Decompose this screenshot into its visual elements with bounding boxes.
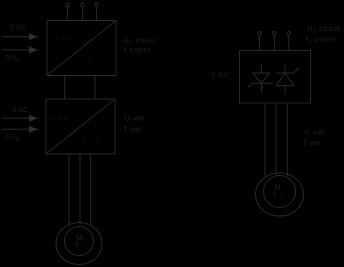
svg-text:3 AC: 3 AC: [10, 23, 27, 32]
wire T6 drop: [288, 35, 290, 50]
wire motor phase 1: [68, 154, 70, 225]
svg-text:f var: f var: [125, 124, 143, 133]
svg-text:= DC: = DC: [52, 115, 69, 122]
svg-text:f var: f var: [304, 138, 322, 147]
thyristor V1 triangle: [253, 73, 270, 83]
thyristor V1 bottom lead: [260, 83, 262, 92]
thyristor V2 gate: [294, 68, 299, 74]
svg-text:~: ~: [102, 55, 106, 62]
wire motor2 phase 2: [275, 103, 277, 174]
thyristor V1 gate: [248, 83, 253, 87]
wire motor2 phase 3: [286, 103, 288, 176]
thyristor V1 cathode bar: [253, 82, 273, 84]
terminal T3 left: [95, 3, 99, 7]
wire T4 drop: [259, 35, 261, 50]
arrow A4 head: [30, 126, 39, 132]
thyristor V1 top lead: [260, 65, 262, 74]
svg-text:3 ~: 3 ~: [272, 191, 285, 198]
wire T2 drop: [82, 7, 84, 21]
terminal T4 right: [258, 32, 262, 36]
wire DC link +: [64, 76, 66, 100]
svg-text:3 ~: 3 ~: [75, 242, 88, 249]
arrow A2 line: [2, 49, 32, 51]
terminal T2 left: [81, 3, 85, 7]
thyristor V2 cathode bar: [276, 72, 293, 74]
inverter block U2: [46, 99, 115, 154]
svg-text:=: =: [96, 138, 100, 145]
thyristor V2 triangle: [276, 73, 293, 86]
wire T3 drop: [95, 7, 97, 21]
rectifier block U1: [47, 21, 116, 76]
motor M2 inner circle: [264, 176, 296, 208]
wire motor phase 3: [90, 154, 92, 225]
arrow A1 head: [30, 34, 39, 40]
wire T5 drop: [273, 35, 275, 50]
terminal T1 left: [66, 3, 70, 7]
arrow A2 head: [30, 47, 39, 53]
arrow A1 line: [2, 36, 32, 38]
terminal T5 right: [273, 32, 277, 36]
thyristor V2 bottom lead: [284, 86, 286, 95]
svg-text:f const: f const: [124, 45, 151, 54]
inverter diagonal: [46, 99, 115, 154]
motor M1 outer circle: [56, 223, 102, 265]
thyristor V2 top lead: [284, 65, 286, 74]
wire T1 drop: [66, 7, 68, 21]
terminal T6 right: [287, 32, 291, 36]
arrow A3 head: [30, 115, 39, 121]
svg-text:=: =: [82, 138, 86, 145]
wire DC link -: [94, 76, 96, 100]
svg-text:U var: U var: [125, 114, 146, 123]
motor M1 inner circle: [65, 227, 94, 256]
svg-text:=: =: [88, 56, 92, 63]
svg-text:Uz const: Uz const: [307, 24, 341, 35]
motor M2 outer circle: [256, 173, 304, 216]
wire motor2 phase 1: [264, 103, 266, 177]
svg-text:3 AC: 3 AC: [54, 36, 71, 43]
svg-text:3 AC: 3 AC: [211, 71, 231, 80]
arrow A3 line: [2, 117, 32, 119]
svg-text:3 AC: 3 AC: [12, 105, 29, 114]
soft starter block U3: [240, 51, 311, 104]
arrow A4 line: [2, 128, 32, 130]
wire motor phase 2: [79, 154, 81, 224]
svg-text:U var: U var: [304, 127, 325, 136]
rectifier diagonal: [47, 21, 116, 76]
